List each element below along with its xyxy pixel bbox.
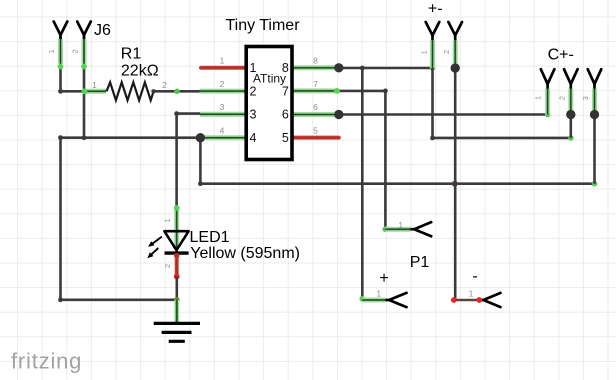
pin 7	[292, 88, 339, 93]
svg-text:7: 7	[313, 79, 318, 89]
node +- pin1 terminal green	[430, 65, 436, 71]
LED emission arrows	[153, 237, 162, 244]
svg-text:5: 5	[282, 131, 289, 145]
connector C+- pin 1	[533, 69, 554, 114]
wire left vertical down	[59, 138, 62, 300]
LED cathode bar	[165, 251, 189, 254]
svg-text:3: 3	[220, 102, 225, 112]
LED pin 2 (red)	[175, 254, 179, 277]
pin 2	[200, 89, 247, 94]
svg-text:3: 3	[581, 96, 590, 100]
node C+- pin2 wire end green	[568, 135, 574, 141]
wire IC pin8 to +- pin1	[339, 67, 433, 70]
ground	[154, 323, 200, 341]
pin 5 (red, unconnected)	[292, 136, 339, 140]
junction IC pin6 big dot	[334, 110, 343, 119]
connector +- pin 1	[419, 22, 439, 68]
svg-text:1: 1	[398, 220, 403, 230]
wire IC pin3 to LED anode	[177, 114, 200, 206]
pin 6	[292, 112, 339, 117]
svg-text:LED1: LED1	[190, 229, 230, 246]
svg-text:1: 1	[220, 56, 225, 66]
junction IC pin6 big dot (top)	[334, 110, 343, 119]
resistor R1	[82, 80, 168, 100]
svg-text:1: 1	[469, 289, 474, 299]
wire J6.1 down to junction	[59, 36, 62, 92]
svg-text:1: 1	[419, 50, 428, 54]
wire +- pin2 down to - pin	[454, 68, 457, 300]
svg-text:22kΩ: 22kΩ	[121, 63, 159, 80]
pin 4	[200, 135, 246, 140]
svg-text:2: 2	[71, 49, 80, 53]
svg-text:2: 2	[162, 80, 167, 90]
svg-text:1: 1	[376, 289, 381, 299]
svg-text:7: 7	[282, 84, 289, 98]
svg-text:1: 1	[533, 96, 542, 100]
wire C+- pin2 down	[569, 115, 572, 138]
junction C+- pin2 big dot	[566, 110, 575, 119]
junction bend at 200.4,183.7	[198, 181, 203, 186]
svg-text:2: 2	[163, 264, 172, 268]
connector + pin 1	[362, 289, 406, 307]
node + pin terminal green	[359, 296, 365, 302]
junction +- pin2 big dot	[451, 63, 460, 72]
svg-text:2: 2	[442, 50, 451, 54]
wire branch down to + pin	[361, 68, 364, 300]
connector C+- pin 3	[581, 69, 601, 119]
junction IC pin4 big dot	[196, 133, 205, 142]
node P1 pin terminal green	[382, 226, 388, 232]
wire to ground (green)	[174, 300, 179, 323]
svg-text:J6: J6	[94, 22, 111, 39]
svg-text:R1: R1	[121, 46, 142, 63]
wire LED cathode to junction	[176, 277, 179, 300]
connector J6 pin 1	[47, 22, 67, 70]
svg-text:6: 6	[313, 102, 318, 112]
pin 1 (red, unconnected)	[201, 66, 246, 70]
wire C+- pin3 down	[593, 115, 596, 184]
svg-text:6: 6	[282, 108, 289, 122]
svg-text:8: 8	[313, 56, 318, 66]
connector +- pin 2	[442, 22, 462, 73]
wire horizontal y138 to IC pin4	[61, 136, 201, 139]
junction IC pin8 big dot (top)	[334, 63, 343, 72]
wire J6.2 down	[83, 36, 86, 138]
wire R1.2 to IC pin2	[153, 90, 200, 93]
wire junction to R1	[61, 90, 86, 93]
node C+- pin3 terminal green	[592, 181, 598, 187]
svg-text:3: 3	[250, 108, 257, 122]
connector P1 pin 1	[385, 220, 431, 237]
junction at 60.5,138	[58, 135, 63, 140]
node R1.2 terminal green	[174, 89, 180, 95]
svg-text:1: 1	[47, 49, 56, 53]
svg-text:2: 2	[220, 79, 225, 89]
pin 3	[200, 112, 246, 117]
junction bend at 176.6,113.6	[174, 111, 179, 116]
junction LED-ground (olive)	[174, 297, 180, 303]
svg-text:fritzing: fritzing	[11, 349, 82, 374]
svg-text:+-: +-	[428, 0, 443, 17]
junction at 84,138	[82, 135, 87, 140]
wire IC pin4 branch down and right to C+- pin3	[200, 138, 594, 184]
svg-text:-: -	[472, 268, 477, 285]
connector - pin 1 (red, unconnected)	[451, 289, 501, 307]
svg-text:5: 5	[313, 125, 318, 135]
junction at 60.5,300	[58, 297, 63, 302]
svg-text:2: 2	[250, 84, 257, 98]
junction wire cross at 454.8,183.7	[452, 181, 458, 187]
svg-text:C+-: C+-	[548, 47, 574, 64]
svg-text:2: 2	[557, 96, 566, 100]
junction C+- pin3 big dot	[590, 110, 599, 119]
connector C+- pin 2	[557, 69, 577, 119]
wire IC pin6 to C+- pin1	[339, 113, 548, 116]
svg-text:Tiny Timer: Tiny Timer	[225, 17, 300, 34]
svg-text:+: +	[379, 270, 388, 287]
junction IC pin4 big dot (top)	[196, 133, 205, 142]
junction IC pin8 big dot	[334, 63, 343, 72]
svg-text:P1: P1	[410, 254, 430, 271]
svg-text:ATtiny: ATtiny	[253, 72, 286, 86]
svg-text:Yellow (595nm): Yellow (595nm)	[190, 245, 300, 262]
pin 8	[292, 65, 339, 70]
junction bend at 432.5,137.9	[430, 136, 435, 141]
LED triangle	[164, 231, 188, 250]
node C+- pin1 terminal green	[545, 112, 551, 118]
LED LED1	[147, 205, 188, 279]
svg-text:4: 4	[250, 131, 257, 145]
IC body	[246, 47, 292, 160]
wire IC pin7 right and down to P1 pin	[339, 91, 386, 229]
wire +- pin1 down and right to C+- pin2	[433, 68, 571, 138]
svg-text:1: 1	[92, 80, 97, 90]
junction T at 362.3,68	[360, 66, 365, 71]
connector J6 pin 2	[71, 22, 91, 70]
junction bend at 385.4,90.9	[383, 89, 388, 94]
junction node A	[58, 89, 63, 94]
wire bottom horizontal to LED cathode	[61, 298, 177, 301]
svg-text:4: 4	[220, 125, 225, 135]
svg-text:1: 1	[163, 219, 172, 223]
